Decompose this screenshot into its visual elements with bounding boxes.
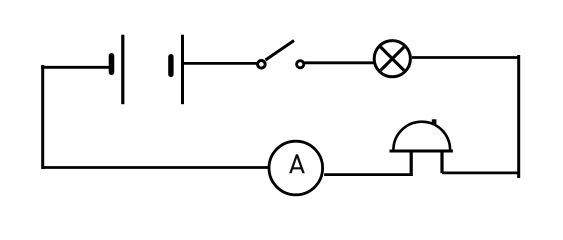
battery cell 2 negative plate (168, 57, 173, 75)
wire top-left horizontal (41, 66, 110, 69)
battery cell 1 negative plate (109, 56, 115, 73)
wire left vertical (41, 65, 44, 169)
wire ammeter to bell (324, 173, 413, 176)
bell B1 striker dot (432, 119, 437, 124)
switch S1 left contact (258, 61, 266, 69)
wire lamp to top-right corner (412, 56, 520, 59)
ammeter A1 body (269, 141, 323, 195)
battery cell 1 positive plate (121, 35, 124, 105)
ammeter A1 label (289, 154, 305, 173)
bell B1 left leg (410, 151, 413, 176)
battery cell 2 positive plate (181, 35, 184, 105)
wire bottom-right bell to corner (442, 171, 520, 174)
wire switch to lamp (303, 61, 373, 64)
switch S1 lever (266, 41, 295, 61)
wire right vertical (517, 55, 520, 178)
lamp L1 (374, 41, 410, 77)
switch S1 right contact (297, 61, 304, 68)
wire bottom-left to ammeter (42, 166, 268, 169)
bell B1 base (390, 150, 453, 153)
bell B1 right leg (440, 151, 443, 173)
bell B1 dome (393, 122, 450, 150)
wire battery to switch (184, 62, 258, 65)
